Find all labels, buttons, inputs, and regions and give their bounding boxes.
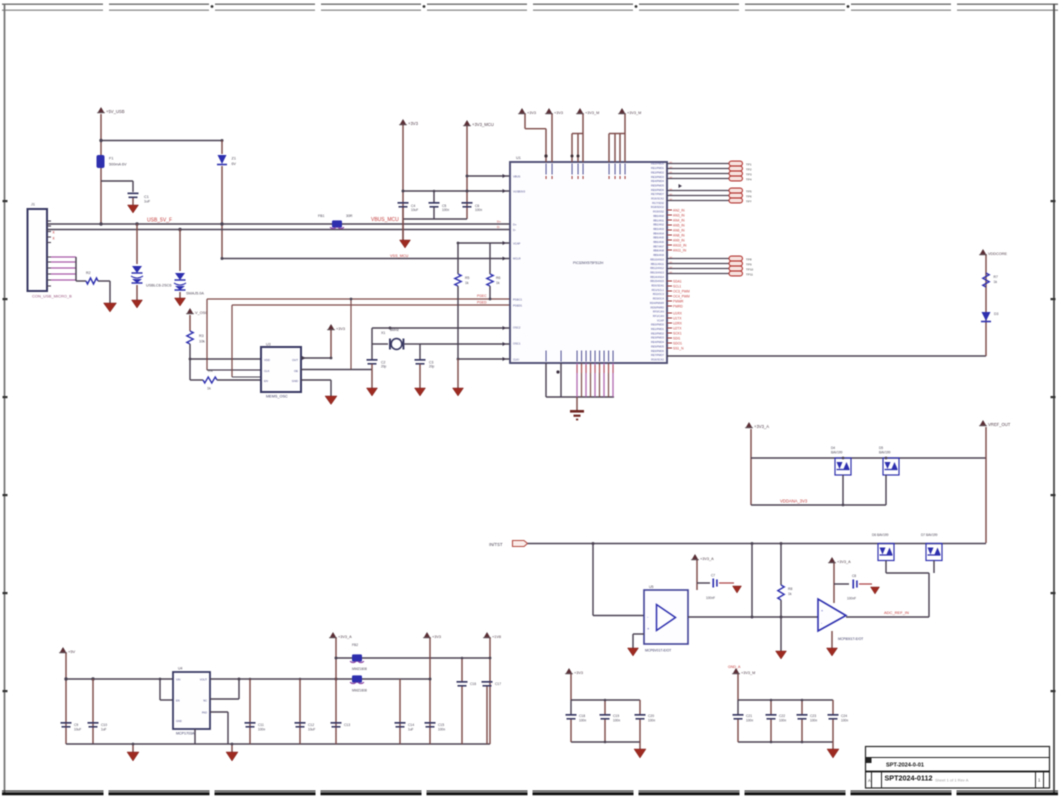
svg-text:U1: U1: [516, 156, 521, 160]
svg-text:RD0/SDA1: RD0/SDA1: [651, 284, 664, 288]
svg-text:TP6: TP6: [746, 195, 752, 199]
svg-text:C21: C21: [746, 714, 752, 718]
svg-text:1uF: 1uF: [408, 728, 414, 732]
svg-text:RD1/SCL1: RD1/SCL1: [652, 288, 665, 292]
capacitor C5: [429, 202, 440, 204]
svg-text:RB3/AN3: RB3/AN3: [653, 227, 664, 231]
svg-text:RB4/AN4: RB4/AN4: [653, 231, 664, 235]
svg-text:RE5/PMD5: RE5/PMD5: [651, 344, 665, 348]
ground U5: [628, 648, 639, 656]
U5 supply: [692, 554, 697, 559]
ground D2: [175, 298, 186, 306]
TVS D1 column: [136, 224, 138, 264]
svg-text:RB13/AN13: RB13/AN13: [650, 270, 664, 274]
cap bank 1 rails: [570, 674, 572, 700]
svg-text:F1: F1: [109, 157, 113, 161]
dual diode D7: [926, 544, 942, 561]
svg-text:U1TX: U1TX: [673, 317, 682, 321]
svg-text:MCLR: MCLR: [513, 256, 521, 260]
MCU top inside pin labels: [546, 164, 547, 175]
svg-text:+3V3_M: +3V3_M: [627, 111, 641, 115]
resistor R3 10k: [187, 331, 193, 344]
svg-text:RE4/PMD4: RE4/PMD4: [651, 340, 665, 344]
svg-text:100n: 100n: [613, 719, 620, 723]
svg-text:1k: 1k: [465, 281, 469, 285]
svg-text:USBLC6-2SC6: USBLC6-2SC6: [146, 284, 172, 288]
svg-text:VDDCORE: VDDCORE: [988, 252, 1007, 256]
ferrite FB3 on 3V3 rail: [352, 675, 362, 682]
capacitor C9: [61, 722, 72, 724]
svg-text:RB6/AN6: RB6/AN6: [653, 240, 664, 244]
svg-text:RD3/OC4: RD3/OC4: [653, 297, 665, 301]
power +3V3 for U3: [328, 324, 333, 329]
svg-text:R8: R8: [788, 587, 792, 591]
U4 pad path: [210, 711, 228, 713]
svg-text:AN3_IN: AN3_IN: [673, 214, 685, 218]
ground C3: [415, 388, 426, 396]
wire Z1 down to MCLR net: [221, 166, 223, 259]
svg-text:10uF: 10uF: [308, 728, 315, 732]
svg-text:OSC2: OSC2: [513, 325, 521, 329]
svg-text:U1RX: U1RX: [673, 312, 683, 316]
ferrite bead FB1 on 5V bus: [332, 220, 342, 227]
svg-text:TP3: TP3: [746, 173, 752, 177]
svg-text:500mA 6V: 500mA 6V: [109, 163, 127, 167]
bottom ground rail: [66, 743, 490, 745]
svg-text:BAV199: BAV199: [879, 451, 891, 455]
ground C2: [367, 388, 378, 396]
svg-text:RE3/PMD3: RE3/PMD3: [651, 336, 665, 340]
svg-text:SDI1: SDI1: [673, 337, 680, 341]
wire VBUS from +5V_USB: [100, 114, 102, 155]
svg-text:MMZ1608: MMZ1608: [352, 689, 367, 693]
U6 supply: [829, 557, 834, 562]
svg-text:RG7/SDI2: RG7/SDI2: [652, 201, 664, 205]
svg-text:SS1_N: SS1_N: [673, 347, 684, 351]
wire VDDANA_3V3: [751, 504, 886, 506]
crystal X1: [391, 339, 402, 350]
svg-text:MCP6V01T-E/OT: MCP6V01T-E/OT: [645, 649, 671, 653]
ground R8: [776, 651, 787, 659]
svg-text:PMWR: PMWR: [673, 300, 684, 304]
svg-text:C1: C1: [144, 195, 149, 199]
resistor R4 1k: [203, 377, 217, 383]
svg-text:+3V3_MCU: +3V3_MCU: [472, 122, 494, 127]
ground rail arrow 1: [132, 744, 134, 752]
svg-text:RD4/PMWR: RD4/PMWR: [650, 301, 664, 305]
J1 shield bundle wires (magenta): [51, 256, 76, 258]
svg-text:VIN: VIN: [176, 678, 180, 682]
svg-text:PMRD: PMRD: [673, 305, 683, 309]
cap bank 2 ground: [832, 742, 834, 749]
wire +3V3 column: [402, 125, 404, 240]
dual diode D6: [878, 544, 894, 561]
svg-text:OE: OE: [294, 369, 298, 373]
dual diode D4 BAV199: [835, 458, 851, 475]
power symbol VDDCORE: [980, 249, 985, 254]
svg-text:VSS_MCU: VSS_MCU: [390, 254, 409, 258]
U4 ground path: [194, 729, 196, 744]
svg-text:D-: D-: [513, 228, 516, 232]
svg-text:SMAJ5.0A: SMAJ5.0A: [186, 292, 204, 296]
capacitor C10 column: [92, 679, 94, 744]
svg-text:AN4_IN: AN4_IN: [673, 219, 685, 223]
svg-text:U2TX: U2TX: [673, 327, 682, 331]
svg-text:RF0/CAN: RF0/CAN: [653, 310, 664, 314]
crystal leads: [372, 343, 388, 345]
svg-text:Z1: Z1: [232, 157, 236, 161]
wire MCLR to MCU: [222, 258, 510, 260]
svg-text:+3V3: +3V3: [408, 121, 419, 126]
svg-text:C16: C16: [470, 682, 476, 686]
connector J1 CON_USB_MICRO_B: [28, 209, 48, 291]
diode D3: [982, 312, 991, 321]
MCU bottom pins VSS loop: [545, 363, 547, 397]
svg-text:RD2/OC3: RD2/OC3: [653, 292, 665, 296]
svg-text:RB1/AN1: RB1/AN1: [653, 218, 664, 222]
shield bundle vertical: [75, 257, 77, 281]
svg-text:RB10/AN10: RB10/AN10: [650, 257, 664, 261]
power symbol +3V3_A top: [746, 422, 751, 427]
svg-text:C24: C24: [841, 714, 847, 718]
cap bottom rail: [403, 218, 467, 220]
VCAP / pullup column R5: [458, 242, 510, 244]
svg-text:MMZ1608: MMZ1608: [352, 667, 367, 671]
cap bank 1 capacitors: [570, 700, 572, 714]
svg-text:V_OSC: V_OSC: [195, 311, 208, 315]
svg-text:20p: 20p: [381, 365, 387, 369]
wire IN_TST long: [528, 543, 987, 545]
ground C1: [128, 205, 139, 213]
svg-text:TP10: TP10: [746, 268, 754, 272]
svg-text:RE4/PMD4: RE4/PMD4: [651, 179, 665, 183]
svg-text:U2RX: U2RX: [673, 322, 683, 326]
red net labels right of MCU: [667, 209, 672, 211]
dual diode D5 BAV199: [883, 458, 899, 475]
capacitor C4: [433, 191, 435, 202]
wire osc supply: [189, 315, 191, 331]
test point ovals: [729, 161, 743, 166]
resistor R5 1k: [455, 274, 461, 286]
J1 pin stubs: [47, 220, 51, 222]
svg-text:D3: D3: [994, 312, 998, 316]
svg-text:SPT-2024-0-01: SPT-2024-0-01: [886, 763, 924, 769]
svg-text:CLK: CLK: [264, 369, 270, 373]
capacitor C3: [415, 359, 426, 361]
capacitor C6: [462, 202, 473, 204]
U4 output loop: [210, 678, 239, 680]
oscillator U3 box: [261, 347, 301, 392]
wire VREF rail: [750, 429, 752, 505]
svg-text:VBUS_MCU: VBUS_MCU: [371, 217, 399, 223]
wire CLKI pin: [458, 358, 510, 360]
regulator U4 box: [173, 672, 210, 729]
svg-text:100n: 100n: [442, 208, 449, 212]
svg-text:10uF: 10uF: [74, 728, 81, 732]
svg-text:SCL1: SCL1: [673, 285, 681, 289]
capacitor C17: [482, 681, 493, 683]
svg-text:RE1/PMD1: RE1/PMD1: [651, 166, 665, 170]
junction arrow right of MCU: [679, 184, 683, 188]
svg-text:+3V3_A: +3V3_A: [338, 635, 352, 639]
svg-text:C17: C17: [495, 682, 501, 686]
svg-text:EN: EN: [264, 379, 268, 383]
svg-text:100n: 100n: [810, 719, 817, 723]
svg-text:100n: 100n: [746, 719, 753, 723]
svg-text:100n: 100n: [438, 728, 445, 732]
wire op-amp1 output: [688, 616, 818, 618]
svg-text:VUSB3V3: VUSB3V3: [513, 189, 526, 193]
svg-text:C12: C12: [308, 723, 314, 727]
MCU ground symbol: [570, 410, 584, 413]
svg-text:VCAP: VCAP: [513, 241, 521, 245]
svg-text:TP4: TP4: [746, 178, 752, 182]
svg-text:PGED: PGED: [477, 301, 487, 305]
svg-text:U5: U5: [649, 585, 654, 589]
svg-text:SCK1: SCK1: [673, 332, 682, 336]
svg-text:R7: R7: [994, 275, 998, 279]
svg-text:+3V3: +3V3: [554, 111, 563, 115]
svg-text:GND_A: GND_A: [728, 665, 741, 669]
svg-text:MCP1703A: MCP1703A: [176, 732, 195, 736]
wire +3V3_MCU column: [466, 126, 468, 219]
svg-text:100nF: 100nF: [847, 597, 856, 601]
svg-text:VDDANA_3V3: VDDANA_3V3: [780, 499, 808, 504]
svg-text:100n: 100n: [648, 719, 655, 723]
svg-text:AN8_IN: AN8_IN: [673, 234, 685, 238]
resistor R2 shield: [86, 278, 98, 284]
svg-text:CLKI: CLKI: [513, 357, 519, 361]
+1V8 column: [489, 638, 491, 744]
svg-text:+5V_USB: +5V_USB: [106, 109, 125, 114]
capacitor C2: [367, 359, 378, 361]
svg-text:RG9/SS2: RG9/SS2: [653, 210, 665, 214]
capacitor C15 column: [429, 638, 431, 744]
wire VCAP long net: [667, 355, 986, 357]
U5 bypass cap C7: [697, 582, 710, 584]
svg-text:+3V3_A: +3V3_A: [754, 424, 769, 429]
svg-text:RB11/AN11: RB11/AN11: [651, 262, 665, 266]
ground C7: [733, 586, 742, 593]
svg-text:PIC32MX575F512H: PIC32MX575F512H: [573, 261, 604, 265]
wire U3 enable through R4: [190, 379, 203, 381]
svg-text:TP1: TP1: [746, 163, 752, 167]
svg-text:RG6/SCK2: RG6/SCK2: [651, 357, 664, 361]
wire VUSB3V3 pin: [467, 175, 510, 177]
svg-text:PAD: PAD: [202, 711, 207, 715]
svg-text:+3V3_A: +3V3_A: [700, 557, 714, 561]
svg-text:+3V3: +3V3: [574, 671, 583, 675]
svg-text:10uF: 10uF: [411, 208, 418, 212]
svg-text:MEMS_OSC: MEMS_OSC: [266, 395, 288, 399]
clamp diode return wires: [885, 561, 887, 574]
zener Z1 column: [221, 141, 223, 155]
svg-text:RE0/PMD0: RE0/PMD0: [651, 162, 665, 166]
ground D1: [132, 300, 143, 308]
svg-text:TP2: TP2: [746, 168, 752, 172]
svg-text:SPT2024-0112: SPT2024-0112: [885, 774, 933, 783]
ground rail arrow 2: [231, 744, 233, 752]
U6 ground: [831, 631, 833, 648]
svg-text:D7 BAV199: D7 BAV199: [921, 533, 938, 537]
svg-text:100n: 100n: [475, 208, 482, 212]
svg-text:RF1/CAN: RF1/CAN: [653, 314, 664, 318]
svg-text:RE2/PMD2: RE2/PMD2: [651, 170, 665, 174]
MCU top pin group 1 supply: [519, 108, 524, 113]
svg-text:1k: 1k: [994, 280, 998, 284]
svg-text:+3V3_M: +3V3_M: [585, 111, 599, 115]
U5 feedback to ground: [633, 633, 644, 635]
svg-text:GND: GND: [176, 719, 182, 723]
svg-text:RE1/PMD1: RE1/PMD1: [651, 327, 665, 331]
svg-text:+: +: [821, 609, 823, 613]
power symbol +3V3 out: [424, 632, 429, 637]
svg-text:D+: D+: [513, 222, 517, 226]
TVS diode D2: [175, 273, 185, 280]
svg-text:OC4_PWM: OC4_PWM: [673, 295, 690, 299]
capacitor C16: [457, 681, 468, 683]
svg-text:X1: X1: [381, 331, 385, 335]
3V3 output rail: [239, 678, 430, 680]
cap bank 1 ground: [639, 742, 641, 749]
svg-text:C14: C14: [408, 723, 414, 727]
power symbol +5V reg: [60, 647, 65, 652]
svg-text:100n: 100n: [258, 728, 265, 732]
svg-text:+3V3_M: +3V3_M: [741, 671, 755, 675]
svg-text:VOUT: VOUT: [200, 678, 208, 682]
svg-text:30R: 30R: [346, 214, 353, 218]
svg-text:VREF_OUT: VREF_OUT: [988, 422, 1011, 427]
svg-text:MCP6001T-E/OT: MCP6001T-E/OT: [838, 637, 863, 641]
ground U3: [325, 396, 337, 405]
svg-text:TP7: TP7: [746, 200, 752, 204]
TVS diode D1 USBLC6: [132, 266, 142, 273]
power symbol +3V3 left: [400, 119, 405, 124]
svg-text:C9: C9: [74, 723, 78, 727]
svg-text:RG6/SCK2: RG6/SCK2: [651, 197, 664, 201]
cap bank 1 power symbol: [566, 668, 571, 673]
svg-text:FB2: FB2: [352, 643, 358, 647]
MCU top pin group 2 supply: [546, 108, 551, 113]
svg-text:C22: C22: [779, 714, 785, 718]
svg-text:GND: GND: [292, 379, 298, 383]
svg-text:RG8/SDO2: RG8/SDO2: [651, 205, 665, 209]
svg-text:SDO1: SDO1: [673, 342, 682, 346]
svg-text:FB1: FB1: [318, 214, 324, 218]
cap bank 2 power symbol: [733, 668, 738, 673]
svg-text:C8: C8: [852, 574, 856, 578]
U6 bypass cap C8: [834, 583, 849, 585]
svg-text:NC: NC: [203, 699, 207, 703]
svg-text:RB5/AN5: RB5/AN5: [653, 236, 664, 240]
wire sense divider: [751, 544, 753, 618]
svg-text:AN11_IN: AN11_IN: [673, 249, 687, 253]
svg-text:1uF: 1uF: [101, 728, 107, 732]
capacitor C11 column: [249, 679, 251, 744]
svg-text:8MHz: 8MHz: [390, 328, 399, 332]
svg-text:C19: C19: [613, 714, 619, 718]
+3V3_A feed column: [335, 638, 337, 744]
svg-text:RB15/AN15: RB15/AN15: [650, 279, 664, 283]
wire OSC2 net: [372, 327, 510, 329]
svg-text:AN6_IN: AN6_IN: [673, 229, 685, 233]
MCU U1 body: [510, 162, 667, 363]
wire OSC1 net: [420, 343, 510, 345]
svg-text:D+: D+: [497, 220, 501, 224]
svg-text:RE2/PMD2: RE2/PMD2: [651, 331, 665, 335]
svg-text:RB8/AN8: RB8/AN8: [653, 249, 664, 253]
svg-text:RB14/AN14: RB14/AN14: [650, 275, 664, 279]
svg-text:RB2/AN2: RB2/AN2: [653, 223, 664, 227]
svg-text:AN9_IN: AN9_IN: [673, 239, 685, 243]
test point wires group A: [667, 163, 729, 165]
svg-text:Sheet 1 of 1 Rev A: Sheet 1 of 1 Rev A: [935, 778, 969, 783]
svg-text:C13: C13: [344, 723, 350, 727]
svg-text:ADC_REF_IN: ADC_REF_IN: [884, 610, 909, 615]
capacitor C1 1uF: [128, 193, 139, 195]
svg-text:10k: 10k: [199, 340, 205, 344]
cap bank 2 rails: [737, 674, 739, 700]
svg-text:D5: D5: [879, 446, 883, 450]
ground R5 column: [453, 388, 464, 396]
wire USB data bus: [47, 229, 510, 231]
svg-text:PGEC: PGEC: [477, 294, 487, 298]
svg-text:U4: U4: [178, 667, 183, 671]
fuse F1: [97, 155, 105, 168]
svg-text:PGEC1: PGEC1: [513, 297, 523, 301]
pullup R6 on PGC: [489, 243, 491, 274]
svg-text:TP8: TP8: [746, 258, 752, 262]
svg-text:RB7/AN7: RB7/AN7: [653, 244, 664, 248]
wire PGC: [207, 298, 510, 300]
svg-text:OC3_PWM: OC3_PWM: [673, 290, 690, 294]
power symbol VREF_OUT: [980, 420, 985, 425]
crystal column left: [371, 328, 373, 359]
svg-text:+3V3: +3V3: [336, 327, 345, 331]
resistor R8 column: [780, 544, 782, 586]
svg-text:RB0/AN0: RB0/AN0: [653, 214, 664, 218]
svg-text:TP11: TP11: [746, 273, 753, 277]
power symbol +3V3_MCU: [464, 120, 469, 125]
MCU top pin group 4 supply: [619, 108, 624, 113]
svg-text:USB_5V_F: USB_5V_F: [147, 218, 172, 224]
svg-text:OUT: OUT: [292, 358, 298, 362]
svg-text:C15: C15: [438, 723, 444, 727]
wire U3 GND: [301, 379, 331, 381]
svg-text:SDA1: SDA1: [673, 280, 682, 284]
title block: [866, 747, 1050, 789]
svg-text:PGED1: PGED1: [513, 303, 523, 307]
TVS diode D2 SMAJ5.0A column: [179, 230, 181, 272]
svg-text:RE0/PMD0: RE0/PMD0: [651, 323, 665, 327]
svg-text:AN5_IN: AN5_IN: [673, 224, 685, 228]
ferrite FB2 on upper rail: [336, 657, 490, 659]
svg-text:A: A: [868, 778, 871, 783]
capacitor C12 column: [299, 679, 301, 744]
svg-text:RE7/PMD7: RE7/PMD7: [651, 192, 665, 196]
wire U6 output ADC_REF: [846, 616, 929, 618]
svg-text:+3V3_A: +3V3_A: [837, 560, 851, 564]
MCU ground stem: [576, 397, 578, 410]
svg-text:C20: C20: [648, 714, 654, 718]
svg-text:C23: C23: [810, 714, 816, 718]
svg-text:U3: U3: [266, 343, 271, 347]
MCU top pin group 3 supply: [577, 108, 582, 113]
svg-text:R2: R2: [86, 271, 91, 275]
power symbol +3V3_A mid: [330, 632, 335, 637]
capacitor C14 column: [399, 679, 401, 744]
wire fuse to USB bus: [100, 168, 102, 224]
